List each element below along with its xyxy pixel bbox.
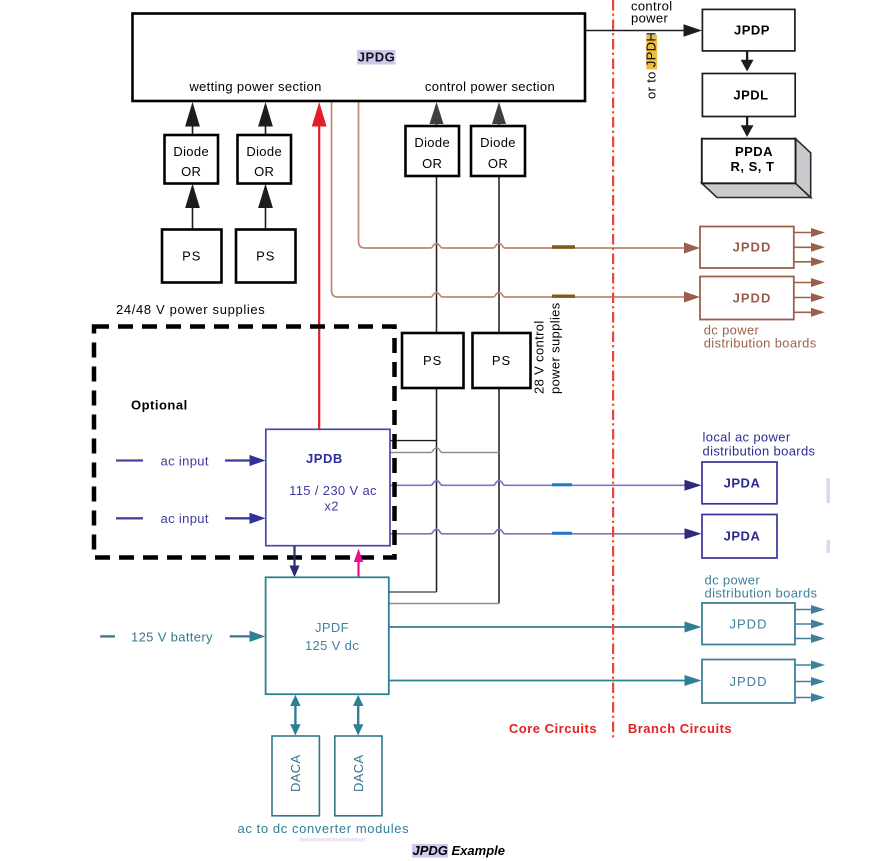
svg-text:PPDA: PPDA xyxy=(735,144,773,159)
svg-text:or to JPDH: or to JPDH xyxy=(644,32,659,99)
svg-text:JPDG: JPDG xyxy=(358,50,395,65)
svg-text:Diode: Diode xyxy=(414,135,450,150)
arrow Diode OR 3 to JPDG xyxy=(430,102,444,126)
svg-text:JPDF: JPDF xyxy=(315,620,349,635)
PS 3 box xyxy=(402,333,464,388)
label 28 V control power supplies (rotated) xyxy=(532,302,563,394)
red wire (to JPDG wetting section) xyxy=(318,122,320,429)
svg-text:JPDP: JPDP xyxy=(734,23,770,38)
wire V2 control vertical (Diode OR 4 to JPDF) xyxy=(390,176,500,604)
arrowhead into JPDD 1 xyxy=(684,243,700,254)
arrowhead into JPDD 2 xyxy=(684,292,700,303)
JPDA 2 box xyxy=(702,515,777,559)
svg-text:JPDA: JPDA xyxy=(724,476,761,491)
svg-text:Branch Circuits: Branch Circuits xyxy=(628,721,732,736)
JPDL box xyxy=(702,74,795,117)
JPDA 1 box xyxy=(702,462,777,504)
svg-text:x2: x2 xyxy=(324,499,338,514)
svg-text:OR: OR xyxy=(181,164,201,179)
JPDP box xyxy=(702,9,795,51)
label control power xyxy=(631,0,672,25)
ac input row 2 xyxy=(116,511,266,526)
svg-text:JPDL: JPDL xyxy=(733,88,768,103)
caption JPDG Example xyxy=(412,843,505,858)
svg-text:115 / 230 V ac: 115 / 230 V ac xyxy=(289,483,377,498)
svg-text:DACA: DACA xyxy=(351,754,366,792)
svg-text:28 V control: 28 V control xyxy=(532,320,547,394)
svg-text:OR: OR xyxy=(422,156,442,171)
arrowhead into JPDD teal 2 xyxy=(685,675,702,686)
svg-text:JPDB: JPDB xyxy=(306,451,343,466)
arrowhead into JPDA 1 xyxy=(685,480,702,491)
JPDD brown 2 box xyxy=(700,277,794,320)
ac input row 1 xyxy=(116,453,266,468)
Diode OR 4 box xyxy=(471,126,525,176)
JPDB box xyxy=(266,429,390,545)
JPDD brown 2 output arrows xyxy=(794,278,825,317)
svg-text:distribution boards: distribution boards xyxy=(705,586,818,601)
svg-text:PS: PS xyxy=(182,249,201,264)
svg-text:distribution boards: distribution boards xyxy=(703,444,816,459)
ghost caption artifact xyxy=(299,838,365,842)
svg-text:OR: OR xyxy=(488,156,508,171)
arrow JPDL to PPDA xyxy=(741,117,754,138)
cable marker on purple wire 2 xyxy=(552,532,572,535)
arrow PS 2 to Diode OR 2 xyxy=(258,184,273,230)
PPDA R,S,T 3D box xyxy=(702,139,811,198)
navy arrow (JPDB to JPDF) xyxy=(289,546,299,578)
wire JPDG to JPDP xyxy=(585,30,686,32)
Diode OR 1 box xyxy=(165,135,219,184)
arrow Diode OR 2 to JPDG xyxy=(258,102,273,135)
svg-text:OR: OR xyxy=(254,164,274,179)
JPDD teal 2 box xyxy=(702,660,795,704)
JPDH highlight xyxy=(646,35,657,70)
label dc power distribution boards (brown) xyxy=(704,323,817,351)
wire teal 1 (JPDF to JPDD teal 1) xyxy=(389,626,686,628)
cable marker on tan wire A xyxy=(552,245,575,248)
arrow Diode OR 1 to JPDG xyxy=(185,102,200,135)
arrowhead into JPDD teal 1 xyxy=(685,622,702,633)
wire tan B (JPDG to JPDD 2) xyxy=(332,101,686,297)
label local ac power distribution boards xyxy=(703,430,816,459)
svg-text:PS: PS xyxy=(423,353,442,368)
double arrow JPDF to DACA 1 xyxy=(290,695,300,736)
svg-text:Diode: Diode xyxy=(173,144,209,159)
svg-text:Optional: Optional xyxy=(131,398,188,413)
cable marker on purple wire 1 xyxy=(552,483,572,486)
JPDD teal 1 box xyxy=(702,603,795,645)
JPDG box xyxy=(133,14,586,102)
ghost artifact bars right edge xyxy=(827,478,831,503)
DACA 1 box xyxy=(272,736,319,816)
svg-text:PS: PS xyxy=(492,353,511,368)
arrow PS 1 to Diode OR 1 xyxy=(185,184,200,230)
svg-text:PS: PS xyxy=(256,249,275,264)
PS 2 box xyxy=(236,230,296,283)
arrow JPDP to JPDL xyxy=(741,51,754,72)
svg-text:ac input: ac input xyxy=(161,511,209,526)
svg-text:control power section: control power section xyxy=(425,79,555,94)
arrowhead into JPDP xyxy=(684,24,703,37)
svg-text:Diode: Diode xyxy=(246,144,282,159)
wire V1 control vertical (Diode OR 3 to JPDF) xyxy=(390,176,437,592)
JPDD brown 1 box xyxy=(700,227,794,269)
PS 4 box xyxy=(473,333,531,388)
Diode OR 3 box xyxy=(406,126,460,176)
arrow Diode OR 4 to JPDG xyxy=(492,102,506,126)
JPDD teal 1 output arrows xyxy=(795,605,825,643)
125 V battery row xyxy=(100,630,265,645)
red arrowhead into JPDG xyxy=(312,102,327,127)
label dc power distribution boards (teal) xyxy=(705,573,818,601)
arrowhead into JPDA 2 xyxy=(685,528,702,539)
JPDG highlight xyxy=(357,50,396,65)
JPDD brown 1 output arrows xyxy=(794,228,825,266)
svg-text:125 V dc: 125 V dc xyxy=(305,638,359,653)
svg-text:Diode: Diode xyxy=(480,135,516,150)
double arrow JPDF to DACA 2 xyxy=(353,695,363,736)
svg-text:DACA: DACA xyxy=(288,754,303,792)
Diode OR 2 box xyxy=(238,135,292,184)
svg-text:JPDD: JPDD xyxy=(733,291,772,306)
svg-text:JPDD: JPDD xyxy=(730,617,768,632)
wire JPDB to V2 (gray, hump over V1) xyxy=(390,448,500,452)
svg-text:power supplies: power supplies xyxy=(548,302,563,394)
magenta arrow (JPDF to JPDB) xyxy=(354,549,363,578)
JPDF box xyxy=(266,577,389,694)
wire purple 1 (JPDB to JPDA 1) xyxy=(390,481,686,485)
PS 1 box xyxy=(162,230,222,283)
svg-text:Core Circuits: Core Circuits xyxy=(509,721,597,736)
DACA 2 box xyxy=(335,736,382,816)
svg-text:JPDD: JPDD xyxy=(730,674,768,689)
svg-text:125 V battery: 125 V battery xyxy=(131,630,213,645)
wire JPDB to V1 (black) xyxy=(390,440,437,442)
wire tan A (JPDG to JPDD 1) xyxy=(359,101,686,248)
svg-text:power: power xyxy=(631,10,668,25)
svg-text:R, S, T: R, S, T xyxy=(731,159,775,174)
wire purple 2 (JPDB to JPDA 2) xyxy=(390,529,686,533)
svg-text:local ac power: local ac power xyxy=(703,430,791,445)
svg-text:distribution boards: distribution boards xyxy=(704,336,817,351)
wire teal 2 (JPDF to JPDD teal 2) xyxy=(389,680,686,682)
dashed Optional box xyxy=(94,327,395,558)
svg-text:JPDG Example: JPDG Example xyxy=(413,843,506,858)
JPDD teal 2 output arrows xyxy=(795,661,825,703)
svg-text:ac to dc converter modules: ac to dc converter modules xyxy=(238,821,410,836)
svg-text:JPDD: JPDD xyxy=(733,240,772,255)
svg-text:JPDA: JPDA xyxy=(724,529,761,544)
cable marker on tan wire B xyxy=(552,295,575,298)
svg-text:ac input: ac input xyxy=(161,453,209,468)
red dash-dot boundary line xyxy=(612,0,614,740)
svg-text:wetting power section: wetting power section xyxy=(188,79,321,94)
svg-text:24/48 V power supplies: 24/48 V power supplies xyxy=(116,302,265,317)
